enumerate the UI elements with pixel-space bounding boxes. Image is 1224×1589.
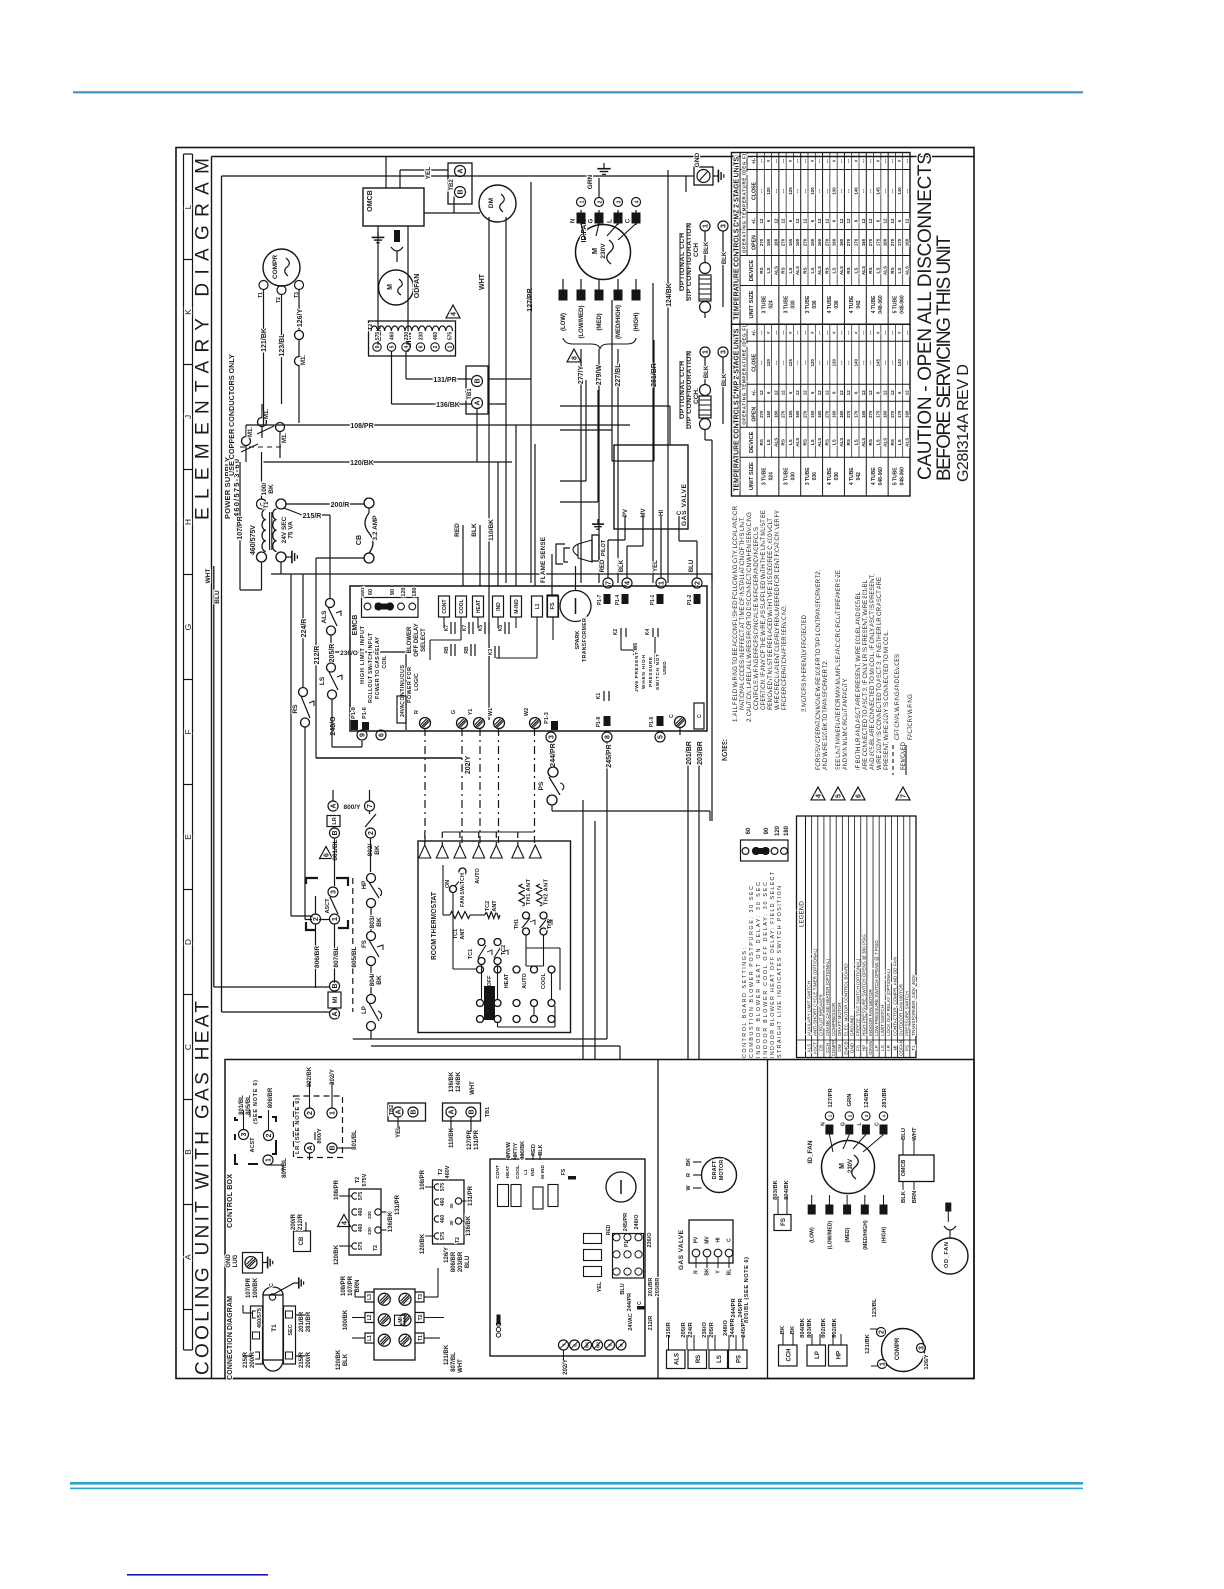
svg-text:FAN SWITCH: FAN SWITCH	[460, 873, 466, 907]
svg-text:108/PR: 108/PR	[420, 1169, 426, 1190]
svg-text:LP: LP	[815, 1351, 821, 1359]
svg-text:T2: T2	[355, 1177, 361, 1183]
svg-text:036: 036	[834, 300, 840, 309]
svg-text:124/BK: 124/BK	[456, 1071, 462, 1092]
svg-text:BK: BK	[376, 975, 383, 985]
svg-text:5: 5	[658, 735, 665, 739]
svg-text:120/BK: 120/BK	[420, 1233, 426, 1254]
svg-text:806/BR: 806/BR	[268, 1087, 274, 1108]
svg-text:(HIGH): (HIGH)	[882, 1227, 888, 1244]
svg-text:---: ---	[824, 330, 829, 335]
svg-text:W1: W1	[488, 708, 494, 716]
svg-text:RED: RED	[531, 1144, 537, 1156]
svg-text:126/Y: 126/Y	[297, 309, 304, 328]
svg-text:---: ---	[817, 188, 822, 193]
svg-text:175: 175	[875, 410, 880, 418]
svg-text:170: 170	[854, 410, 859, 418]
svg-text:2. CAUTION: LABEL ALL WIRES PR: 2. CAUTION: LABEL ALL WIRES PRIOR TO DIS…	[746, 512, 753, 722]
svg-text:---: ---	[824, 360, 829, 365]
svg-text:FREEZE STAT SWITCH (OPTIONAL): FREEZE STAT SWITCH (OPTIONAL)	[856, 958, 861, 1036]
svg-text:SPARK: SPARK	[575, 631, 581, 650]
svg-text:T1: T1	[911, 1045, 916, 1051]
svg-text:ALS: ALS	[839, 266, 844, 275]
svg-text:121/BK: 121/BK	[865, 1333, 871, 1353]
svg-text:BLK: BLK	[619, 559, 625, 572]
svg-text:JW6: JW6	[633, 643, 639, 654]
svg-text:(MED): (MED)	[597, 313, 603, 330]
svg-text:12: 12	[773, 218, 778, 223]
svg-text:12: 12	[868, 390, 873, 395]
svg-text:---: ---	[803, 158, 808, 163]
svg-text:EMCB: EMCB	[843, 1041, 848, 1054]
svg-text:202/Y: 202/Y	[563, 1359, 569, 1375]
svg-text:LS: LS	[875, 268, 880, 274]
svg-text:100/: 100/	[261, 482, 268, 495]
svg-text:---: ---	[795, 360, 800, 365]
svg-text:12: 12	[883, 218, 888, 223]
svg-text:FS: FS	[362, 940, 368, 948]
svg-text:RS: RS	[803, 267, 808, 273]
svg-text:030: 030	[790, 300, 796, 309]
svg-text:TEMPERATURE CONTROLS D*MP 2-ST: TEMPERATURE CONTROLS D*MP 2-STAGE UNITS	[732, 328, 741, 491]
svg-text:---: ---	[883, 360, 888, 365]
svg-text:ALS: ALS	[905, 266, 910, 275]
svg-text:1: 1	[266, 1158, 273, 1162]
svg-text:804/BK: 804/BK	[800, 1317, 806, 1337]
svg-text:FS: FS	[781, 1218, 787, 1226]
svg-text:3: 3	[241, 1132, 248, 1136]
svg-text:CONTROL BOX: CONTROL BOX	[225, 1174, 234, 1228]
svg-text:150: 150	[810, 410, 815, 418]
svg-text:M1.: M1.	[248, 427, 254, 437]
svg-text:244/PR: 244/PR	[730, 1318, 736, 1338]
svg-text:4: 4	[342, 1221, 349, 1225]
svg-text:LS: LS	[319, 676, 326, 685]
svg-text:COMBUSTION BLOWER POSTPURGE:: COMBUSTION BLOWER POSTPURGE: 30 SEC	[749, 886, 755, 1058]
svg-text:3 TUBE: 3 TUBE	[762, 467, 768, 485]
svg-text:RS: RS	[846, 267, 851, 273]
svg-text:A: A	[183, 1254, 193, 1260]
svg-text:G: G	[589, 218, 595, 223]
svg-text:A: A	[449, 1109, 456, 1114]
svg-text:M-IND: M-IND	[514, 599, 520, 614]
svg-text:6: 6	[419, 345, 425, 348]
svg-text:270: 270	[759, 238, 764, 246]
svg-text:OMCB: OMCB	[901, 1160, 907, 1177]
svg-text:---: ---	[781, 360, 786, 365]
svg-text:TEMPERATURE CONTROLS D*MZ 2-ST: TEMPERATURE CONTROLS D*MZ 2-STAGE UNITS	[732, 157, 741, 320]
svg-text:2: 2	[879, 1330, 886, 1334]
svg-text:130: 130	[832, 187, 837, 195]
svg-text:227/BL: 227/BL	[615, 363, 622, 387]
svg-text:203/BR: 203/BR	[655, 1278, 661, 1297]
svg-text:230V: 230V	[848, 1159, 854, 1173]
svg-text:T1: T1	[264, 501, 270, 509]
svg-text:OPTIONAL WIRING AND DEVICES: OPTIONAL WIRING AND DEVICES	[894, 654, 901, 740]
svg-text:PRESSURE SWITCH: PRESSURE SWITCH	[905, 991, 910, 1036]
svg-text:801/BL: 801/BL	[239, 1095, 245, 1115]
svg-text:INDOOR BLOWER HEAT ON DELAY:: INDOOR BLOWER HEAT ON DELAY: 30 SEC	[756, 882, 762, 1058]
svg-text:HEAT: HEAT	[476, 600, 482, 613]
svg-text:OPERATING TEMPERATURE (DEG F): OPERATING TEMPERATURE (DEG F)	[742, 325, 747, 425]
svg-text:1. ALL FIELD WIRING TO BE ACCO: 1. ALL FIELD WIRING TO BE ACCOMPLISHED F…	[732, 505, 739, 722]
svg-text:INDOOR BLOWER HEAT OFF DELAY:: INDOOR BLOWER HEAT OFF DELAY: FIELD SELE…	[770, 871, 776, 1058]
svg-text:140: 140	[854, 187, 859, 195]
svg-text:LS: LS	[717, 1355, 723, 1363]
svg-text:807/BL: 807/BL	[333, 946, 340, 967]
svg-text:140: 140	[854, 359, 859, 367]
svg-text:120: 120	[766, 359, 771, 367]
svg-text:108/PR: 108/PR	[334, 1179, 340, 1200]
svg-text:270: 270	[803, 410, 808, 418]
svg-text:CCH: CCH	[787, 1349, 793, 1362]
svg-text:R: R	[694, 1270, 700, 1274]
svg-text:LIMIT SWITCH: LIMIT SWITCH	[880, 1005, 885, 1036]
svg-text:120/BK: 120/BK	[350, 460, 374, 467]
svg-text:170: 170	[854, 238, 859, 246]
svg-text:160: 160	[773, 238, 778, 246]
svg-text:107/PR: 107/PR	[237, 516, 244, 539]
svg-text:270: 270	[824, 238, 829, 246]
svg-text:USED: USED	[662, 661, 668, 675]
svg-text:L: L	[857, 1122, 863, 1125]
svg-text:WHT: WHT	[479, 273, 486, 290]
svg-text:160: 160	[817, 410, 822, 418]
svg-text:RB: RB	[444, 646, 450, 654]
svg-text:LS: LS	[832, 268, 837, 274]
svg-text:120: 120	[810, 359, 815, 367]
svg-text:LUG: LUG	[233, 1254, 239, 1267]
svg-text:(LOW/MED): (LOW/MED)	[579, 306, 585, 339]
svg-text:OD_FAN: OD_FAN	[944, 1242, 950, 1268]
svg-text:215/R: 215/R	[299, 1351, 305, 1368]
svg-text:M1.: M1.	[301, 355, 307, 365]
svg-text:270: 270	[890, 410, 895, 418]
svg-text:K5: K5	[498, 625, 504, 632]
svg-text:460/575: 460/575	[257, 1308, 263, 1328]
svg-text:WHT: WHT	[458, 1359, 464, 1373]
svg-text:203/BR: 203/BR	[458, 1251, 464, 1272]
svg-text:LS: LS	[897, 439, 902, 445]
svg-text:248/O: 248/O	[330, 716, 337, 736]
svg-text:RS: RS	[890, 439, 895, 445]
svg-text:---: ---	[795, 188, 800, 193]
svg-text:120: 120	[766, 187, 771, 195]
svg-text:---: ---	[817, 158, 822, 163]
svg-text:CRANK CASE HEATER (OPTIONAL): CRANK CASE HEATER (OPTIONAL)	[825, 959, 830, 1036]
svg-text:575: 575	[440, 1232, 446, 1241]
svg-text:801/BL: 801/BL	[352, 1130, 358, 1150]
svg-text:3. MOTORS INHERENTLY PROTECTED: 3. MOTORS INHERENTLY PROTECTED	[801, 614, 808, 712]
svg-text:LOW PRESSURE SWITCH OPENS @ 7: LOW PRESSURE SWITCH OPENS @ 7 PSIG	[874, 940, 879, 1036]
svg-text:3.2 AMP: 3.2 AMP	[372, 515, 379, 541]
svg-text:SW1: SW1	[360, 587, 365, 597]
svg-text:110/BK: 110/BK	[449, 1127, 455, 1148]
svg-text:YEL: YEL	[425, 167, 432, 180]
svg-text:202/Y: 202/Y	[330, 1069, 336, 1085]
svg-text:W: W	[686, 1185, 692, 1191]
svg-text:4 TUBE: 4 TUBE	[827, 295, 833, 313]
svg-text:244/PR: 244/PR	[627, 1293, 633, 1311]
svg-text:212/R: 212/R	[298, 1213, 304, 1230]
svg-text:A: A	[331, 803, 338, 808]
svg-text:3: 3	[919, 1346, 926, 1350]
svg-text:HI: HI	[659, 510, 665, 516]
svg-text:12: 12	[846, 390, 851, 395]
svg-text:575: 575	[375, 332, 381, 341]
svg-text:9: 9	[375, 345, 381, 348]
svg-text:12: 12	[781, 218, 786, 223]
svg-text:GROUND: GROUND	[849, 1015, 854, 1036]
svg-text:248/O: 248/O	[723, 1320, 729, 1336]
svg-text:P1-8: P1-8	[596, 717, 602, 728]
svg-text:B: B	[458, 189, 465, 194]
svg-text:270: 270	[846, 238, 851, 246]
svg-text:---: ---	[773, 330, 778, 335]
svg-text:215/R: 215/R	[303, 513, 322, 520]
svg-text:TB1: TB1	[467, 388, 473, 400]
svg-text:---: ---	[773, 360, 778, 365]
svg-text:---: ---	[846, 158, 851, 163]
svg-text:(MED/HIGH): (MED/HIGH)	[863, 1220, 869, 1250]
svg-text:205/R: 205/R	[709, 1321, 715, 1337]
svg-text:ALS: ALS	[675, 1353, 681, 1365]
svg-text:12: 12	[817, 218, 822, 223]
svg-text:4 TUBE: 4 TUBE	[849, 467, 855, 485]
svg-text:CONT: CONT	[442, 599, 448, 613]
svg-text:---: ---	[759, 188, 764, 193]
svg-text:---: ---	[773, 188, 778, 193]
svg-text:124/BK: 124/BK	[666, 283, 673, 307]
svg-text:DRAFT MOTOR: DRAFT MOTOR	[837, 1002, 842, 1036]
svg-text:HIGH LIMIT INPUT: HIGH LIMIT INPUT	[360, 625, 366, 684]
svg-text:036: 036	[812, 472, 818, 481]
svg-text:160: 160	[861, 410, 866, 418]
svg-text:270: 270	[824, 410, 829, 418]
svg-text:12: 12	[861, 218, 866, 223]
svg-text:---: ---	[781, 158, 786, 163]
svg-text:DM: DM	[488, 198, 495, 208]
svg-text:CB: CB	[819, 1045, 824, 1051]
svg-text:B: B	[411, 1109, 418, 1114]
svg-text:3 TUBE: 3 TUBE	[805, 295, 811, 313]
svg-text:120/BK: 120/BK	[334, 1244, 340, 1265]
svg-text:CIRCUIT BREAKER: CIRCUIT BREAKER	[819, 994, 824, 1036]
svg-text:6: 6	[379, 733, 386, 737]
svg-text:IND: IND	[496, 602, 502, 611]
svg-text:GAS VALVE: GAS VALVE	[678, 1229, 685, 1270]
svg-text:270: 270	[890, 238, 895, 246]
svg-text:807/BL: 807/BL	[451, 1352, 457, 1372]
svg-text:R: R	[414, 710, 420, 714]
svg-text:SEC: SEC	[288, 1324, 294, 1335]
svg-text:460: 460	[390, 332, 396, 341]
svg-text:3 TUBE: 3 TUBE	[783, 295, 789, 313]
svg-text:CCH: CCH	[693, 243, 700, 257]
svg-text:---: ---	[824, 188, 829, 193]
svg-text:IND: IND	[530, 1167, 536, 1176]
svg-text:POWER FOR: POWER FOR	[407, 667, 413, 703]
svg-text:2: 2	[266, 1133, 273, 1137]
svg-text:LS: LS	[832, 439, 837, 445]
svg-text:180: 180	[784, 825, 790, 836]
svg-text:12: 12	[839, 390, 844, 395]
svg-text:B: B	[332, 983, 339, 988]
svg-text:575: 575	[448, 332, 454, 341]
svg-text:270: 270	[803, 238, 808, 246]
svg-text:130: 130	[832, 359, 837, 367]
svg-text:201/BR: 201/BR	[299, 1311, 305, 1332]
svg-text:036: 036	[812, 300, 818, 309]
svg-text:---: ---	[890, 158, 895, 163]
svg-text:3: 3	[549, 735, 556, 739]
svg-text:---: ---	[905, 188, 910, 193]
svg-text:12: 12	[905, 390, 910, 395]
svg-text:COMPR: COMPR	[272, 255, 279, 280]
svg-text:P1: P1	[624, 1241, 630, 1247]
svg-text:160: 160	[883, 238, 888, 246]
svg-text:ALS: ALS	[883, 266, 888, 275]
svg-text:HP: HP	[862, 1045, 867, 1051]
svg-text:PS: PS	[538, 781, 545, 790]
svg-text:M: M	[590, 248, 599, 254]
svg-text:048-060: 048-060	[878, 295, 884, 314]
svg-text:155: 155	[788, 238, 793, 246]
svg-text:LS: LS	[788, 439, 793, 445]
svg-text:ALS: ALS	[773, 438, 778, 447]
svg-text:CONTACTOR, COMPR. AND OD FAN: CONTACTOR, COMPR. AND OD FAN	[892, 957, 897, 1036]
svg-text:COOL: COOL	[541, 972, 547, 989]
svg-text:RS: RS	[846, 439, 851, 445]
svg-text:140: 140	[897, 187, 902, 195]
svg-text:TRANSFORMER: TRANSFORMER	[582, 618, 588, 662]
svg-text:245/PR: 245/PR	[623, 1213, 629, 1231]
svg-text:3: 3	[721, 350, 728, 354]
svg-text:BLK: BLK	[471, 523, 478, 537]
svg-text:230: 230	[367, 1211, 372, 1219]
svg-text:ALS: ALS	[795, 266, 800, 275]
svg-text:75 VA: 75 VA	[288, 521, 295, 539]
svg-text:FLAME SENSE: FLAME SENSE	[540, 536, 547, 583]
svg-text:90: 90	[764, 827, 770, 834]
svg-text:---: ---	[839, 360, 844, 365]
svg-text:RS: RS	[824, 267, 829, 273]
svg-text:ALS: ALS	[321, 610, 328, 624]
svg-text:K4: K4	[645, 629, 651, 636]
svg-text:H: H	[183, 519, 193, 525]
svg-text:F: F	[183, 729, 193, 734]
svg-text:575V: 575V	[362, 1173, 368, 1186]
svg-text:YEL: YEL	[653, 560, 659, 572]
svg-text:COOL: COOL	[459, 599, 465, 613]
svg-text:J: J	[183, 415, 193, 419]
svg-text:---: ---	[759, 330, 764, 335]
svg-text:---: ---	[846, 330, 851, 335]
svg-text:RS: RS	[759, 267, 764, 273]
svg-text:SWITCH NOT: SWITCH NOT	[655, 654, 661, 690]
svg-text:TC2: TC2	[485, 901, 491, 911]
svg-text:136/BK: 136/BK	[436, 402, 460, 409]
svg-text:ELEC. MOTOR CONTROL BOARD: ELEC. MOTOR CONTROL BOARD	[843, 963, 848, 1036]
svg-text:2: 2	[598, 200, 604, 203]
svg-text:NOTES:: NOTES:	[722, 739, 729, 761]
svg-text:806/BR: 806/BR	[451, 1251, 457, 1272]
svg-text:PILOT: PILOT	[601, 539, 607, 556]
svg-text:12: 12	[817, 390, 822, 395]
svg-text:DEVICE: DEVICE	[749, 260, 755, 282]
svg-text:125: 125	[788, 359, 793, 367]
svg-text:ALS: ALS	[905, 438, 910, 447]
svg-text:200/R: 200/R	[306, 1351, 312, 1368]
svg-text:P1-1: P1-1	[650, 595, 656, 606]
svg-text:GAS VALVE: GAS VALVE	[681, 483, 688, 526]
svg-text:236/O: 236/O	[647, 1232, 653, 1248]
svg-text:SEE UNIT NAMEPLATE FOR MAXIMUM: SEE UNIT NAMEPLATE FOR MAXIMUM FUSE AND/…	[835, 570, 842, 770]
svg-text:800/Y: 800/Y	[317, 1128, 323, 1143]
svg-text:4: 4	[635, 200, 641, 203]
svg-text:BLK: BLK	[901, 1190, 907, 1203]
svg-text:281/BR: 281/BR	[882, 1087, 888, 1107]
svg-text:200/R: 200/R	[250, 1351, 256, 1368]
svg-text:C: C	[269, 1283, 275, 1287]
svg-text:GRN: GRN	[587, 174, 594, 189]
svg-text:---: ---	[803, 330, 808, 335]
svg-text:126/Y: 126/Y	[924, 1354, 930, 1369]
svg-text:127/PR: 127/PR	[467, 1129, 473, 1150]
svg-text:TC2: TC2	[501, 945, 507, 955]
svg-text:COOLING UNIT WITH GAS HEAT: COOLING UNIT WITH GAS HEAT	[193, 1001, 214, 1375]
svg-text:BLU: BLU	[214, 590, 221, 604]
svg-text:12: 12	[759, 218, 764, 223]
svg-text:RS: RS	[781, 439, 786, 445]
svg-text:108/PR: 108/PR	[350, 423, 373, 430]
svg-text:131/PR: 131/PR	[433, 377, 456, 384]
svg-text:BLK: BLK	[704, 241, 710, 254]
svg-text:G: G	[451, 710, 457, 714]
svg-text:M1.: M1.	[264, 409, 270, 419]
svg-text:---: ---	[817, 330, 822, 335]
svg-text:460: 460	[358, 1224, 364, 1233]
svg-text:MI: MI	[333, 996, 339, 1003]
svg-text:WIRE OREQUIVALENT CLEARLY RENU: WIRE OREQUIVALENT CLEARLY RENUMBERED FOR…	[774, 510, 781, 710]
svg-text:GND: GND	[694, 152, 701, 167]
svg-text:UNIT SIZE: UNIT SIZE	[749, 462, 755, 490]
svg-text:12: 12	[781, 390, 786, 395]
svg-text:030: 030	[790, 472, 796, 481]
svg-text:100/BK: 100/BK	[343, 1309, 349, 1330]
svg-text:LR: LR	[886, 1044, 891, 1051]
svg-text:270: 270	[868, 410, 873, 418]
svg-text:BRN: BRN	[912, 1191, 918, 1204]
svg-text:245/PR: 245/PR	[606, 744, 613, 767]
svg-text:150: 150	[766, 410, 771, 418]
svg-text:460: 460	[440, 1198, 446, 1207]
svg-text:---: ---	[861, 360, 866, 365]
svg-text:12: 12	[773, 390, 778, 395]
svg-text:12: 12	[795, 390, 800, 395]
svg-text:806/BR: 806/BR	[314, 946, 321, 968]
svg-text:160: 160	[839, 238, 844, 246]
svg-text:---: ---	[905, 330, 910, 335]
svg-text:244/PR: 244/PR	[731, 1298, 737, 1318]
svg-text:---: ---	[803, 188, 808, 193]
svg-text:N: N	[571, 219, 577, 223]
svg-text:270: 270	[759, 410, 764, 418]
svg-text:E: E	[183, 834, 193, 840]
svg-text:1: 1	[448, 345, 454, 348]
svg-text:G: G	[183, 624, 193, 631]
svg-text:1: 1	[332, 917, 339, 921]
